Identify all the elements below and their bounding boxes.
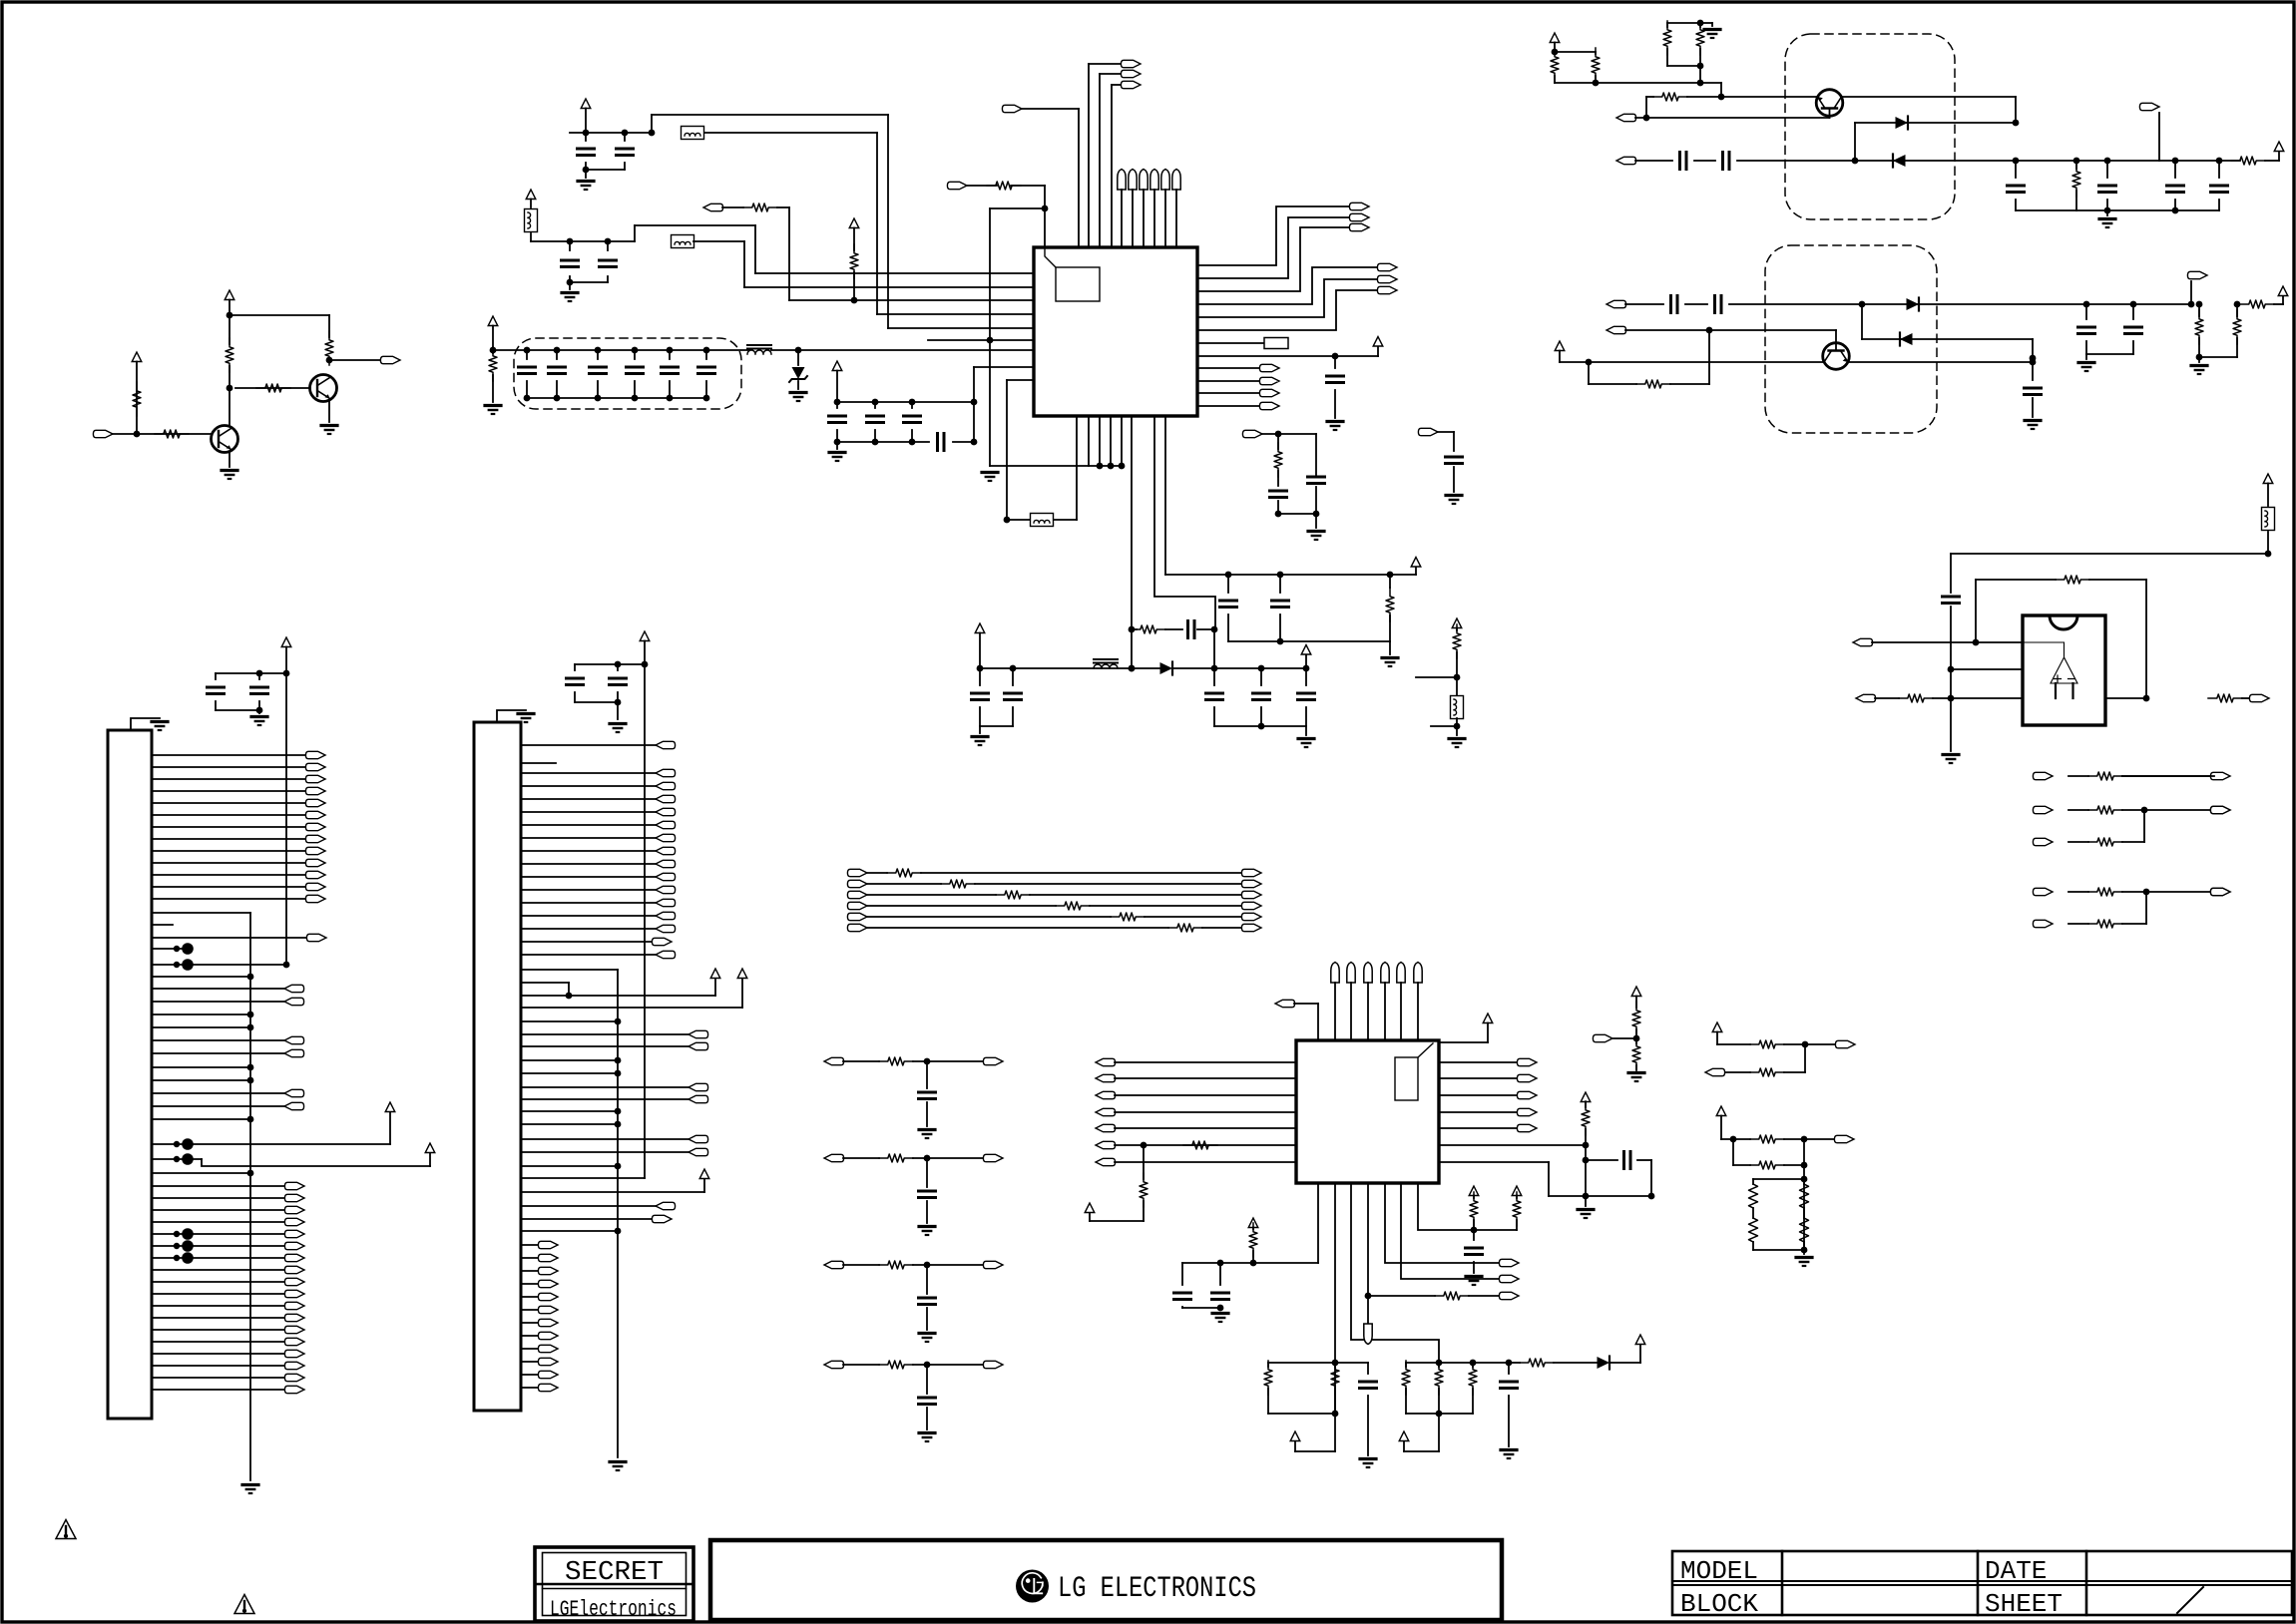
svg-text:SHEET: SHEET xyxy=(1985,1589,2063,1619)
svg-text:MODEL: MODEL xyxy=(1680,1556,1758,1586)
svg-text:DATE: DATE xyxy=(1985,1556,2047,1586)
svg-text:LGElectronics: LGElectronics xyxy=(550,1597,677,1622)
svg-text:LG ELECTRONICS: LG ELECTRONICS xyxy=(1058,1572,1256,1606)
svg-text:BLOCK: BLOCK xyxy=(1680,1589,1758,1619)
svg-text:SECRET: SECRET xyxy=(565,1558,664,1588)
